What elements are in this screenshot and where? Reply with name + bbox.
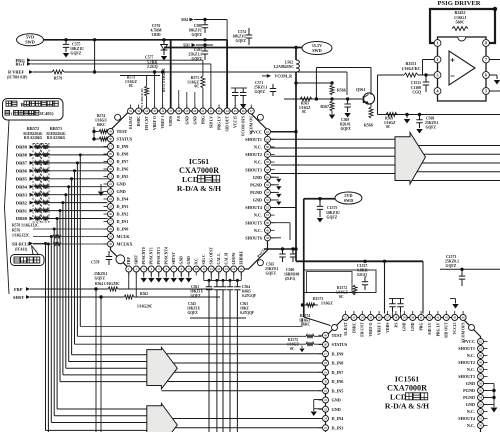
wire FRP drop	[95, 289, 97, 432]
svg-text:POSCNT4: POSCNT4	[165, 247, 169, 264]
svg-text:25KZ1.1: 25KZ1.1	[188, 53, 202, 57]
op-amp notch	[458, 37, 466, 41]
IC561 top pin SID LV number 42	[208, 108, 214, 114]
power rail 15.5V oval	[302, 42, 332, 55]
wire top loop	[316, 67, 371, 69]
wire IC1561 pin stubs left	[319, 334, 323, 336]
IC561 top pin PRG LV number 43	[216, 108, 222, 114]
svg-text:C569: C569	[341, 118, 349, 122]
IC561 left pin D_IN9 number 17	[108, 144, 114, 150]
wire PVCC tie	[271, 131, 296, 133]
IC1561 corner pin TR	[469, 325, 475, 331]
capacitor C581	[188, 45, 208, 61]
resistor array element	[35, 201, 41, 205]
label C564	[242, 285, 257, 298]
op-amp pin 7	[483, 56, 490, 63]
svg-text:R562: R562	[140, 292, 148, 296]
wire 15.5V rail	[164, 47, 302, 49]
resistor array element	[35, 185, 41, 189]
wire stub	[186, 92, 188, 108]
resistor R566	[330, 85, 346, 95]
IC561 right pin SHOUT2 number 59	[265, 151, 271, 157]
wire bus row to TEST2	[77, 335, 306, 337]
IC1561 top pin P.S number 38	[393, 315, 399, 321]
svg-text:GND: GND	[193, 116, 197, 125]
svg-text:5: 5	[485, 89, 487, 94]
resistor R579	[52, 70, 64, 81]
IC561 left pin MCLK number 29	[108, 234, 114, 240]
ground stub	[271, 176, 279, 178]
IC1561 left pin D_IN4 number 24	[323, 416, 329, 422]
IC561 top pin GND number 39	[184, 108, 190, 114]
junction	[203, 38, 206, 41]
junction	[405, 113, 408, 116]
svg-text:POSCNT0: POSCNT0	[142, 247, 146, 264]
wire C577	[120, 75, 160, 77]
svg-text:GND: GND	[403, 322, 407, 331]
diode C576	[150, 24, 167, 61]
wire bus vertical	[76, 163, 78, 336]
junction	[229, 279, 232, 282]
label SD1	[183, 43, 196, 47]
IC561 top pin GND number 40	[192, 108, 198, 114]
capacitor bank C561..	[227, 280, 233, 296]
node DR88	[16, 153, 34, 158]
svg-text:GND: GND	[466, 402, 475, 407]
svg-text:RB571: RB571	[50, 126, 62, 131]
wire bus row to TEST	[75, 343, 307, 345]
svg-text:GQFZ: GQFZ	[341, 127, 352, 131]
svg-text:R11A2204G: R11A2204G	[24, 136, 43, 140]
junction	[73, 169, 76, 172]
svg-text:(IC7801 83P): (IC7801 83P)	[7, 75, 28, 79]
svg-text:DSRC: DSRC	[352, 322, 356, 333]
svg-text:R1EB2204G: R1EB2204G	[23, 132, 42, 136]
svg-text:DSRC: DSRC	[137, 116, 141, 127]
wire DR82	[34, 202, 108, 204]
svg-text:C545: C545	[188, 302, 196, 306]
svg-text:C1100: C1100	[411, 86, 421, 90]
wire	[216, 296, 218, 432]
svg-text:IC561: IC561	[189, 157, 209, 166]
svg-text:10KZ1U: 10KZ1U	[70, 47, 84, 51]
IC561 left pin D_IN8 number 18	[108, 151, 114, 157]
IC1561 top pin VREF I number 36	[376, 315, 382, 321]
svg-text:4.7RM: 4.7RM	[150, 29, 161, 33]
svg-text:PRG: PRG	[420, 322, 424, 330]
wire SHOUT4	[271, 207, 296, 209]
IC1561 gnd bracket	[314, 399, 322, 401]
svg-text:R579: R579	[54, 77, 63, 81]
wire bus to arrow G2	[46, 429, 147, 431]
op-amp pin 5	[483, 88, 490, 95]
wire SHOUT bus out	[411, 145, 500, 147]
ground	[150, 272, 152, 278]
resistor R569	[384, 113, 397, 130]
label SH-RCLK	[12, 241, 33, 251]
IC1561 left pin D_IN5 number 21	[323, 388, 329, 394]
wire pin stubs left	[104, 131, 108, 133]
wire DR85	[34, 178, 108, 180]
resistor R576	[53, 235, 61, 239]
IC1561 left pin STATUS number 50	[323, 342, 329, 348]
svg-text:R574: R574	[97, 114, 105, 118]
IC1561 body fill	[326, 318, 481, 432]
junction	[50, 235, 53, 238]
svg-text:560C: 560C	[456, 20, 465, 25]
node VCOM_R	[262, 74, 292, 79]
wire SHOUT bus	[271, 138, 397, 140]
svg-text:25KZ0.1: 25KZ0.1	[445, 260, 459, 264]
svg-text:GND: GND	[332, 398, 341, 403]
ground	[100, 184, 102, 191]
wire IC1561 pin stubs top	[345, 311, 347, 315]
svg-text:SID OUT: SID OUT	[226, 116, 230, 132]
dashed box RB571	[42, 144, 50, 223]
svg-text:C578: C578	[91, 261, 100, 265]
capacitor C1531	[411, 75, 430, 95]
wire	[190, 317, 246, 319]
resistor R1575	[306, 334, 314, 338]
svg-text:6.8KK: 6.8KK	[357, 269, 368, 273]
capacitor C579	[231, 88, 247, 111]
svg-text:N.C.: N.C.	[467, 367, 475, 372]
svg-text:C576: C576	[152, 24, 161, 28]
wire SH-RCLK	[33, 243, 46, 245]
capacitor C1575	[317, 199, 340, 223]
junction	[315, 97, 318, 100]
wire thick SID OUT	[226, 40, 228, 111]
svg-text:PGND: PGND	[250, 190, 262, 195]
svg-text:C565: C565	[266, 263, 274, 267]
IC561 right pin GND number 56	[265, 174, 271, 180]
wire MCLK row	[33, 236, 53, 238]
svg-text:GQFZ: GQFZ	[191, 294, 202, 298]
svg-text:5.1RK: 5.1RK	[147, 61, 157, 65]
capacitor C575	[63, 40, 84, 58]
svg-text:SD4: SD4	[181, 18, 188, 22]
IC561 left pin D_IN4 number 24	[108, 196, 114, 202]
IC561 bottom pin SHST number 2	[133, 266, 139, 272]
ground	[301, 346, 303, 349]
IC561 left pin MCLKX number 30	[108, 241, 114, 247]
svg-text:SWD: SWD	[312, 48, 322, 53]
svg-text:10KZ: 10KZ	[240, 307, 249, 311]
junction	[203, 18, 206, 21]
op-amp triangle	[449, 51, 475, 85]
IC1561 top pin VCC15 number 45	[452, 315, 458, 321]
svg-text:D_IN5: D_IN5	[332, 388, 344, 393]
wire stub	[178, 90, 180, 108]
IC1561 top pin PRG number 41	[418, 315, 424, 321]
svg-text:C574: C574	[238, 30, 246, 34]
resistor R578	[53, 242, 61, 246]
capacitor C569	[340, 99, 351, 131]
svg-text:PRG LV: PRG LV	[436, 322, 440, 336]
svg-text:C571: C571	[255, 81, 263, 85]
label SD4	[181, 18, 194, 22]
svg-text:D_IN3: D_IN3	[332, 425, 344, 430]
svg-text:Q561: Q561	[356, 87, 365, 92]
svg-text:25KZ0.1: 25KZ0.1	[94, 272, 108, 276]
svg-text:VCC15: VCC15	[234, 116, 238, 128]
IC561 top pin VDDS number 37	[168, 108, 174, 114]
svg-text:ELDAT: ELDAT	[129, 116, 133, 129]
svg-text:R564 1/16GZ0C: R564 1/16GZ0C	[95, 282, 120, 286]
wire cap bank	[203, 272, 205, 280]
svg-text:SID OUT: SID OUT	[445, 322, 449, 338]
svg-text:SWD: SWD	[344, 198, 354, 203]
svg-text:SIG OFST: SIG OFST	[210, 247, 214, 265]
ground	[180, 272, 182, 278]
svg-text:POSCNT3: POSCNT3	[157, 247, 161, 264]
svg-text:0.47GQF: 0.47GQF	[242, 294, 257, 298]
wire DR88	[34, 154, 108, 156]
wire	[64, 71, 347, 73]
wire bus vertical	[50, 237, 52, 423]
wire	[236, 296, 238, 432]
svg-text:R566: R566	[337, 89, 346, 93]
IC1561 top pin GND number 39	[401, 315, 407, 321]
label C561	[190, 285, 204, 298]
capacitor bank C561..	[214, 280, 220, 296]
svg-text:GQFZ: GQFZ	[192, 57, 203, 61]
IC561 left pin D_IN6 number 20	[108, 166, 114, 172]
IC561 top pin PRG number 41	[200, 108, 206, 114]
IC1561 right pin PVCC number 62	[478, 339, 484, 345]
wire bus vertical	[59, 211, 61, 382]
wire DR81	[34, 210, 108, 212]
IC1561 right pin SHOUT1 number 61	[478, 346, 484, 352]
junction	[64, 38, 67, 41]
svg-text:1/16GJ22C: 1/16GJ22C	[12, 233, 30, 237]
wire bus vertical	[68, 187, 70, 362]
svg-text:IC1561: IC1561	[395, 375, 419, 384]
IC1561 right pin SHOUT3 number 57	[478, 374, 484, 380]
svg-text:CXA7000R: CXA7000R	[179, 166, 219, 175]
svg-text:GQFZ: GQFZ	[236, 39, 247, 43]
node DR80	[16, 216, 34, 221]
svg-text:C563: C563	[240, 302, 248, 306]
wire	[208, 296, 210, 432]
node DR84	[16, 184, 34, 189]
svg-text:SHOUT1: SHOUT1	[245, 137, 262, 142]
wire PRG	[31, 59, 203, 61]
svg-text:SID LV: SID LV	[428, 322, 432, 334]
IC U561 body	[111, 111, 268, 269]
IC561 top pin ELDAT number 32	[128, 108, 134, 114]
IC561 bottom pin EHDRE number 16	[238, 266, 244, 272]
junction	[383, 260, 386, 263]
svg-text:C568: C568	[426, 117, 434, 121]
IC561 right pin PVCC number 62	[265, 129, 271, 135]
resistor network RB571 labels	[46, 126, 65, 140]
svg-text:D_IN9: D_IN9	[117, 144, 129, 149]
svg-text:D_IN2: D_IN2	[117, 212, 129, 217]
IC561 corner pin TR	[257, 114, 263, 120]
junction	[53, 228, 56, 231]
svg-text:SHST: SHST	[135, 254, 139, 264]
svg-text:STATUS: STATUS	[117, 137, 133, 142]
IC561 bottom pin GND number 8	[178, 266, 184, 272]
capacitor C1537	[357, 261, 368, 290]
svg-text:10KZ1U: 10KZ1U	[190, 290, 204, 294]
inductor L562	[274, 60, 300, 72]
svg-text:SHST: SHST	[13, 295, 24, 300]
wire feedback loop	[430, 9, 495, 43]
wire MCLKX row	[33, 243, 53, 245]
svg-text:SHTST: SHTST	[172, 252, 176, 265]
svg-text:6: 6	[485, 73, 487, 78]
svg-text:16KC: 16KC	[301, 323, 311, 327]
svg-text:VREF I: VREF I	[378, 322, 382, 335]
IC561 right pin SHOUT3 number 57	[265, 167, 271, 173]
svg-text:1/16GJ/KC: 1/16GJ/KC	[401, 66, 420, 71]
svg-text:R VREF: R VREF	[8, 70, 24, 75]
svg-text:D_IN7: D_IN7	[332, 370, 344, 375]
label FRP	[14, 287, 30, 292]
IC561 left pin D_IN3 number 25	[108, 204, 114, 210]
svg-text:PRG LV: PRG LV	[217, 116, 221, 130]
svg-text:D_IN3: D_IN3	[117, 204, 129, 209]
junction	[59, 209, 62, 212]
wire bus vertical	[45, 244, 47, 431]
svg-text:SIG C: SIG C	[202, 254, 206, 264]
node DR87	[16, 161, 34, 166]
svg-text:C588: C588	[194, 24, 202, 28]
svg-text:N.C.: N.C.	[254, 145, 262, 150]
resistor R3551	[401, 61, 420, 77]
wire bus vertical	[56, 219, 58, 410]
label C563	[240, 302, 255, 315]
resistor R1573	[306, 297, 333, 307]
IC561 left pin D_IN2 number 26	[108, 211, 114, 217]
IC561 corner pin BR	[257, 260, 263, 266]
svg-text:SHOUT2: SHOUT2	[245, 152, 262, 157]
wire pin3	[418, 74, 434, 76]
svg-text:1: 1	[437, 41, 439, 46]
svg-text:PGND: PGND	[250, 182, 262, 187]
resistor network RB572 labels	[23, 126, 42, 140]
IC1561 right pin PGND number 54	[478, 395, 484, 401]
op-amp pin 1	[434, 40, 441, 47]
wire	[229, 296, 231, 432]
ground stub	[271, 191, 279, 193]
wire base line	[284, 98, 364, 100]
IC1561 left pin D_IN6 number 20	[323, 379, 329, 385]
resistor array element	[35, 161, 41, 165]
IC1561 left pin TEST number 49	[323, 332, 329, 338]
wire pin7	[490, 59, 500, 61]
svg-text:VREF I: VREF I	[161, 115, 165, 128]
svg-text:VCC15: VCC15	[453, 322, 457, 334]
wire SHST drop	[100, 297, 102, 432]
resistor on TEST line	[92, 130, 108, 134]
wire SD1	[196, 44, 213, 46]
svg-text:IC401): IC401)	[40, 111, 54, 116]
resistor array element	[35, 209, 41, 213]
svg-text:DR81: DR81	[16, 208, 28, 213]
svg-text:2.2GQ: 2.2GQ	[147, 65, 158, 69]
svg-text:SHOUT6: SHOUT6	[245, 235, 262, 240]
wire	[346, 72, 348, 95]
wire bus vertical	[53, 229, 55, 416]
svg-text:PVCC: PVCC	[463, 339, 475, 344]
wire RGT drop	[210, 64, 212, 111]
svg-text:D_IN7: D_IN7	[117, 159, 129, 164]
power rail 5VD oval 2	[335, 192, 362, 204]
IC1561 top pin SL DAT number 32	[343, 315, 349, 321]
op-amp pin 2	[434, 56, 441, 63]
svg-text:GND: GND	[411, 322, 415, 331]
junction	[44, 242, 47, 245]
ground near IC1561 top	[450, 298, 456, 300]
node DR89	[16, 145, 34, 150]
wire bus vertical	[65, 195, 67, 369]
svg-text:0C: 0C	[302, 110, 307, 114]
resistor R1574 label	[299, 314, 311, 327]
svg-text:PRG: PRG	[201, 116, 205, 124]
IC561 bottom pin SIG C number 11	[201, 266, 207, 272]
IC1561 title	[385, 375, 429, 411]
wire bus vertical	[79, 155, 81, 327]
wire	[222, 296, 224, 432]
IC561 bottom pin POSCNT4 number 6	[163, 266, 169, 272]
svg-text:8: 8	[485, 41, 487, 46]
svg-text:TEST: TEST	[117, 129, 128, 134]
wire SHST	[30, 296, 124, 298]
ground stub	[271, 184, 279, 186]
transistor Q561	[356, 87, 375, 104]
svg-text:1/16G20C: 1/16G20C	[137, 305, 153, 309]
label R VREF	[7, 70, 33, 80]
wire bus vertical	[71, 179, 73, 355]
junction	[99, 295, 102, 298]
IC1561 left pin D_IN8 number 18	[323, 360, 329, 366]
svg-text:DR80: DR80	[16, 216, 28, 221]
junction	[76, 161, 79, 164]
svg-text:VDDS: VDDS	[169, 116, 173, 126]
IC1561 right pin SHOUT4 number 51	[478, 416, 484, 422]
wire VREF stub	[154, 72, 156, 111]
wire DR86	[34, 170, 108, 172]
svg-text:GQFZ: GQFZ	[327, 216, 338, 220]
svg-text:10KZ1U: 10KZ1U	[188, 29, 202, 33]
svg-text:GQFZ: GQFZ	[426, 126, 437, 130]
IC561 right pin N.C. number 49	[265, 227, 271, 233]
svg-text:VREF O: VREF O	[369, 322, 373, 336]
junction	[47, 243, 50, 246]
svg-text:3: 3	[437, 73, 439, 78]
IC561 right pin N.C. number 58	[265, 159, 271, 165]
svg-text:DR89: DR89	[16, 145, 28, 150]
wire DR89	[34, 146, 108, 148]
junction	[79, 153, 82, 156]
capacitor C574	[232, 28, 252, 45]
wire collector	[370, 94, 372, 96]
IC1561 left pin D_IN7 number 19	[323, 369, 329, 375]
IC561 top pin VCC15 number 45	[232, 108, 238, 114]
capacitor C1573	[440, 255, 500, 286]
svg-text:R578 1/16GJ22C: R578 1/16GJ22C	[12, 224, 39, 228]
wire stub	[194, 92, 196, 108]
wire DR84	[34, 186, 108, 188]
resistor R574	[95, 114, 107, 127]
svg-text:MCLKX: MCLKX	[117, 242, 133, 247]
resistor R571	[187, 60, 205, 111]
svg-text:R568: R568	[364, 124, 373, 128]
IC561 right pin SHOUT4 number 52	[265, 205, 271, 211]
